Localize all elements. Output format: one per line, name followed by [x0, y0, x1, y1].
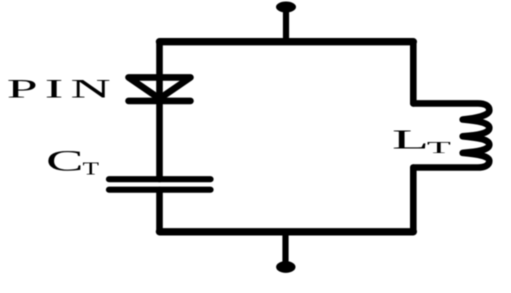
wire right branch lower (inductor to bottom wire): [410, 168, 417, 232]
svg-text:L: L: [392, 125, 429, 155]
label L_T: [392, 125, 429, 155]
node bottom terminal: [276, 261, 295, 273]
svg-text:C: C: [46, 144, 84, 177]
wire top horizontal: [160, 38, 414, 45]
wire right branch upper (top wire to inductor): [410, 42, 417, 104]
svg-text:PIN: PIN: [7, 74, 118, 103]
wire bottom terminal stub: [282, 232, 288, 264]
wire top terminal stub: [283, 9, 289, 42]
label PIN: [7, 74, 118, 103]
diode PIN (triangle + cathode bar): [129, 77, 191, 101]
wire bottom horizontal: [160, 228, 414, 235]
svg-text:T: T: [83, 159, 99, 179]
inductor L_T coil: [413, 103, 489, 167]
label C_T: [46, 144, 84, 177]
node top terminal: [276, 2, 296, 13]
wire left branch upper (top wire to capacitor top plate): [156, 42, 163, 179]
capacitor C_T plates: [109, 179, 211, 190]
wire left branch lower (capacitor bottom plate to bottom wire): [156, 190, 163, 232]
svg-text:T: T: [427, 138, 451, 157]
